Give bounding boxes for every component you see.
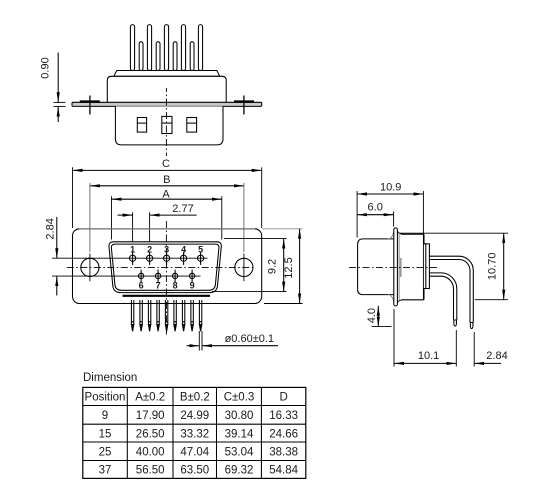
svg-text:B±0.2: B±0.2 xyxy=(180,392,210,404)
pin short 7 xyxy=(156,42,160,71)
svg-text:54.84: 54.84 xyxy=(269,465,298,477)
pin tall 2 xyxy=(147,25,151,71)
svg-text:9: 9 xyxy=(102,410,108,422)
mounting hole left xyxy=(81,258,99,276)
dim 2.84 row arrow lower xyxy=(56,276,58,295)
pin 7 xyxy=(155,270,160,283)
rear pin tip xyxy=(470,323,473,329)
flange plate xyxy=(73,229,262,304)
svg-text:Position: Position xyxy=(85,392,126,404)
table row line 2 xyxy=(83,423,306,425)
side view centerline xyxy=(349,266,438,268)
dim 2.84 extension xyxy=(473,332,475,367)
table col line 2 xyxy=(172,387,174,478)
table border xyxy=(83,387,306,478)
dim 12.5 extension top xyxy=(262,228,303,230)
dim 6.0 extension right xyxy=(393,212,395,227)
svg-text:2: 2 xyxy=(147,245,152,255)
svg-text:9: 9 xyxy=(190,281,195,291)
insulator strip xyxy=(114,71,220,77)
dim 10.1 extension left xyxy=(393,309,395,367)
svg-text:9.2: 9.2 xyxy=(266,259,278,274)
svg-text:25: 25 xyxy=(99,447,112,459)
svg-text:5: 5 xyxy=(198,245,203,255)
mounting hole left centerline xyxy=(89,254,91,282)
solder pin 5 front view xyxy=(165,300,168,331)
svg-text:B: B xyxy=(163,174,170,186)
solder pin 1 front view xyxy=(131,300,134,331)
dim 9.2 extension bottom xyxy=(212,291,287,293)
D-shell outer xyxy=(109,242,221,293)
table header row xyxy=(85,392,288,404)
dim C extension left xyxy=(72,167,74,228)
dim 10.1 line xyxy=(394,362,456,364)
dim 10.9 extension left xyxy=(356,191,358,238)
dim C extension right xyxy=(261,167,263,228)
solder pin 4 front view xyxy=(157,300,160,331)
table col line 3 xyxy=(216,387,218,478)
centerline top view xyxy=(165,88,167,156)
shell fillet bottom xyxy=(388,295,394,301)
svg-text:15: 15 xyxy=(99,428,112,440)
svg-text:53.04: 53.04 xyxy=(225,447,254,459)
pin tall 3 xyxy=(164,25,168,71)
dim A extension left xyxy=(111,196,113,239)
svg-text:6: 6 xyxy=(139,281,144,291)
table row line 3 xyxy=(83,441,306,443)
D-shell inner xyxy=(111,244,219,290)
rear ferrule band xyxy=(398,234,400,301)
svg-text:10.70: 10.70 xyxy=(486,253,498,281)
table row 37 xyxy=(99,465,299,477)
dim 0.90 line lower xyxy=(57,107,59,123)
mounting flange side xyxy=(394,228,398,306)
table col line 4 xyxy=(260,387,262,478)
pin 5 xyxy=(198,252,204,265)
rear body bottom edge xyxy=(402,299,425,301)
svg-text:30.80: 30.80 xyxy=(225,410,254,422)
svg-text:40.00: 40.00 xyxy=(136,447,165,459)
pin 1 xyxy=(130,252,136,265)
pin 8 xyxy=(172,270,177,283)
svg-text:4.0: 4.0 xyxy=(366,308,378,323)
pin 2 xyxy=(147,252,153,265)
dim 10.70 extension top xyxy=(400,232,509,234)
svg-text:4: 4 xyxy=(181,245,186,255)
dim 9.2 extension top xyxy=(224,238,287,240)
slot mark xyxy=(400,258,402,277)
lower body xyxy=(115,106,223,144)
dim 4.0 line xyxy=(377,306,379,327)
svg-text:24.66: 24.66 xyxy=(269,428,298,440)
dim 12.5 line xyxy=(299,229,301,304)
hole cross left xyxy=(80,96,100,115)
dim C line xyxy=(73,169,262,171)
pin tall 5 xyxy=(198,25,202,71)
pin 4 xyxy=(181,252,187,265)
dim B extension left xyxy=(89,183,91,252)
pin 3 xyxy=(164,252,170,265)
solder pin 7 front view xyxy=(182,300,185,331)
solder pin 2 front view xyxy=(140,300,143,331)
pin tall 1 xyxy=(130,25,134,71)
svg-text:10.9: 10.9 xyxy=(380,181,401,193)
vertical centerline xyxy=(165,221,167,335)
contact window left xyxy=(137,118,146,133)
svg-text:38.38: 38.38 xyxy=(269,447,298,459)
svg-text:47.04: 47.04 xyxy=(180,447,209,459)
dim 0.60 arrow right with tail xyxy=(202,345,278,347)
front pin tip xyxy=(454,320,457,326)
rear body bottom right step xyxy=(424,289,426,300)
svg-text:17.90: 17.90 xyxy=(136,410,165,422)
dim 0.60 extension left xyxy=(198,331,200,351)
table row 15 xyxy=(99,428,298,440)
table col line 1 xyxy=(126,387,128,478)
svg-text:8: 8 xyxy=(173,281,178,291)
rear body fillet bottom xyxy=(397,300,402,303)
svg-text:33.32: 33.32 xyxy=(180,428,209,440)
dim 0.60 arrow left xyxy=(187,345,200,347)
dim 0.90 extension top xyxy=(54,101,66,103)
svg-text:39.14: 39.14 xyxy=(225,428,254,440)
table row 25 xyxy=(99,447,298,459)
flange top edge gray overlay xyxy=(79,228,255,230)
svg-text:Dimension: Dimension xyxy=(83,372,137,384)
svg-text:7: 7 xyxy=(156,281,161,291)
rear insulator plate xyxy=(426,244,430,289)
pin row line bottom xyxy=(52,275,201,277)
pin 9 xyxy=(189,270,194,283)
mounting hole right xyxy=(235,258,253,276)
shell fillet top xyxy=(388,233,394,239)
mounting hole right centerline xyxy=(243,254,245,282)
dim 0.90 extension bottom xyxy=(54,105,66,107)
shell cap xyxy=(107,76,226,102)
pin 6 xyxy=(138,270,143,283)
rear body right edge xyxy=(424,234,426,244)
horizontal centerline xyxy=(67,266,253,268)
svg-text:24.99: 24.99 xyxy=(180,410,209,422)
rear body top edge xyxy=(402,233,425,235)
front pin (lower) xyxy=(429,273,456,320)
svg-text:10.1: 10.1 xyxy=(418,350,439,362)
svg-text:69.32: 69.32 xyxy=(225,465,254,477)
svg-text:3: 3 xyxy=(164,245,169,255)
pin tall 4 xyxy=(181,25,185,71)
dim B line xyxy=(90,185,244,187)
mounting flange bar xyxy=(72,102,262,106)
svg-text:0.90: 0.90 xyxy=(40,57,52,78)
svg-text:ø0.60±0.1: ø0.60±0.1 xyxy=(225,333,274,345)
svg-text:63.50: 63.50 xyxy=(180,465,209,477)
dim 10.70 line xyxy=(503,233,505,300)
svg-text:2.77: 2.77 xyxy=(172,203,193,215)
pin short 6 xyxy=(139,42,143,71)
table row line 4 xyxy=(83,460,306,462)
svg-text:2.84: 2.84 xyxy=(45,218,57,239)
dim 4.0 extension bottom xyxy=(372,326,392,328)
svg-text:26.50: 26.50 xyxy=(136,428,165,440)
dim 10.1 extension right xyxy=(455,330,457,367)
svg-text:C±0.3: C±0.3 xyxy=(224,392,255,404)
dim 2.77 extension pin1 xyxy=(132,212,134,250)
svg-text:1: 1 xyxy=(130,245,135,255)
shell front profile xyxy=(358,239,394,295)
svg-text:16.33: 16.33 xyxy=(269,410,298,422)
dim A extension right xyxy=(221,196,223,239)
contact window center xyxy=(162,116,172,133)
rear body fillet top xyxy=(397,231,402,234)
dim 12.5 extension bottom xyxy=(264,303,303,305)
rear pin (upper) xyxy=(429,256,473,322)
solder pin 6 front view xyxy=(174,300,177,331)
dim B extension right xyxy=(243,183,245,252)
dim 2.77 extension pin2 xyxy=(149,212,151,250)
dim 2.84 arrow with tail xyxy=(474,362,501,364)
dim 10.70 extension bottom xyxy=(475,299,508,301)
pin short 8 xyxy=(173,42,177,71)
svg-text:A±0.2: A±0.2 xyxy=(135,392,165,404)
table row line 1 xyxy=(83,405,306,407)
insulator bottom edge xyxy=(123,295,211,297)
dim 2.77 arrow left xyxy=(118,214,133,216)
pin short 9 xyxy=(190,42,194,71)
svg-text:A: A xyxy=(162,188,170,200)
svg-text:56.50: 56.50 xyxy=(136,465,165,477)
dim A line xyxy=(112,198,222,200)
contact window right xyxy=(187,118,197,133)
table row 9 xyxy=(102,410,298,422)
dim 2.84 row arrow upper xyxy=(56,217,58,258)
svg-text:37: 37 xyxy=(99,465,112,477)
svg-text:C: C xyxy=(162,158,170,170)
solder pin 9 front view xyxy=(199,300,202,331)
dim 2.77 arrow right with tail xyxy=(150,214,197,216)
solder pin 8 front view xyxy=(191,300,194,331)
dim 6.0 line xyxy=(357,214,394,216)
svg-text:2.84: 2.84 xyxy=(486,350,507,362)
solder pin 3 front view xyxy=(148,300,151,331)
dim 9.2 line xyxy=(283,239,285,292)
dim 0.60 extension right xyxy=(201,331,203,351)
svg-text:D: D xyxy=(279,392,287,404)
pin row line top xyxy=(52,257,208,259)
hole cross right xyxy=(234,96,254,115)
svg-text:12.5: 12.5 xyxy=(283,257,295,278)
dim 0.90 line upper xyxy=(57,53,59,103)
dim 10.9 extension right xyxy=(422,191,424,300)
svg-text:6.0: 6.0 xyxy=(368,202,383,214)
dim 10.9 line xyxy=(357,193,423,195)
